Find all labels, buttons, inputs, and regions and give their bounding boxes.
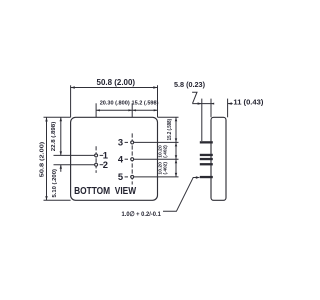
wire dash pin4 label: [125, 158, 128, 160]
wire ext pin1 left: [54, 154, 95, 156]
side pin 1 bar: [200, 154, 213, 156]
ext line left bottom: [44, 199, 71, 201]
arrow stack pin5 down: [175, 173, 177, 177]
wire dash pin2 label: [100, 164, 104, 166]
pin 5 circle: [131, 175, 134, 178]
ext line right stack top: [158, 116, 179, 118]
svg-text:BOTTOM VIEW: BOTTOM VIEW: [74, 186, 136, 197]
arrow 5.8 left tip: [211, 103, 214, 105]
wire pin4 row right: [134, 158, 178, 160]
arrow 22.8 bottom: [60, 151, 62, 155]
dimension line 50.8 top: [71, 87, 158, 89]
arrow pin note: [196, 176, 200, 178]
leader for pin diameter note: [163, 178, 196, 212]
arrow 22.8 top: [60, 117, 62, 121]
ext line left top: [44, 116, 71, 118]
ext line mid col A: [95, 103, 97, 117]
ext line side body right face: [227, 99, 229, 118]
svg-text:4: 4: [118, 153, 124, 164]
centerline column B: [131, 133, 133, 184]
wire dash pin3 label: [125, 141, 128, 143]
dimension lead 11: [228, 103, 233, 105]
arrow 5.10 up: [60, 165, 62, 169]
dimension stub 5.10: [60, 165, 62, 172]
ext line pin tips side: [201, 99, 203, 141]
svg-text:11 (0.43): 11 (0.43): [233, 98, 263, 107]
pin 3 circle: [131, 141, 134, 144]
arrow stack pin4 down: [175, 155, 177, 159]
arrow 20.30 right: [128, 109, 132, 111]
pin 1 circle: [95, 154, 98, 157]
side pin 3 bar: [200, 141, 213, 143]
svg-text:50.8 (2.00): 50.8 (2.00): [97, 78, 136, 87]
wire pin5 row right: [134, 176, 178, 178]
svg-text:1.0∅ + 0.2/-0.1: 1.0∅ + 0.2/-0.1: [122, 211, 162, 218]
bottom view body outline: [71, 117, 158, 200]
svg-text:10.20: 10.20: [158, 145, 164, 158]
leader Z for 5.8: [192, 92, 197, 103]
svg-text:3: 3: [118, 137, 123, 148]
arrow stack pin3 up: [175, 142, 177, 146]
wire dash pin1 label: [100, 154, 104, 156]
arrow stack top up: [175, 117, 177, 121]
ext line side body left face: [210, 99, 212, 118]
side view body outline: [211, 117, 226, 200]
arrow 50.8 top right: [153, 86, 157, 88]
svg-text:15.2 (.598): 15.2 (.598): [167, 119, 173, 141]
pin 4 circle: [131, 158, 134, 161]
arrow 50.8 left top: [45, 117, 47, 121]
side pin 2 bar: [200, 163, 213, 165]
arrow 20.30 left: [96, 109, 100, 111]
arrow 15.2h right: [154, 109, 158, 111]
wire dash pin5 label: [125, 176, 128, 178]
arrow 15.2h left: [132, 109, 136, 111]
side pin 5 bar: [200, 176, 213, 178]
svg-text:15.2 (.598): 15.2 (.598): [132, 101, 159, 107]
centerline column A: [95, 146, 97, 173]
svg-text:22.8 (.898): 22.8 (.898): [51, 122, 57, 152]
svg-text:2: 2: [103, 159, 108, 170]
wire pin3 row right: [134, 141, 178, 143]
svg-text:5: 5: [118, 171, 123, 182]
arrow stack pin4 up: [175, 159, 177, 163]
arrow stack pin3 down: [175, 138, 177, 142]
svg-text:5.10 (.200): 5.10 (.200): [52, 169, 58, 198]
svg-text:5.8 (0.23): 5.8 (0.23): [174, 80, 205, 89]
svg-text:50.8 (2.00): 50.8 (2.00): [39, 142, 45, 178]
dimension line 5.8: [192, 103, 213, 105]
dimension line 20.30 and 15.2: [96, 109, 157, 111]
pin 2 circle: [95, 163, 98, 166]
svg-text:20.30 (.800): 20.30 (.800): [100, 101, 130, 107]
ext line top right: [157, 85, 159, 117]
ext line top left: [70, 85, 72, 117]
dimension line 22.8: [60, 117, 62, 155]
arrow 50.8 left bottom: [45, 196, 47, 200]
arrow 11 left: [228, 102, 232, 104]
arrow 50.8 top left: [71, 86, 75, 88]
ext line mid col B: [131, 103, 133, 117]
dimension line 50.8 left: [46, 117, 48, 200]
wire ext pin2 left: [54, 164, 95, 166]
arrow 5.8 right: [198, 102, 202, 104]
dimension line right stack: [175, 117, 177, 177]
side pin 4 bar: [200, 158, 213, 160]
svg-text:10.20: 10.20: [158, 162, 164, 175]
